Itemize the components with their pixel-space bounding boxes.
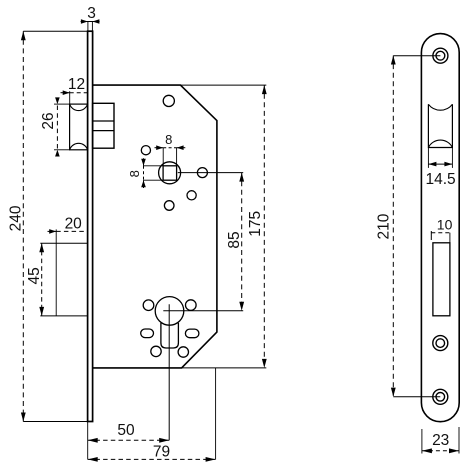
svg-text:10: 10 — [437, 217, 453, 233]
svg-text:210: 210 — [376, 213, 393, 239]
svg-text:175: 175 — [247, 211, 264, 237]
svg-text:14.5: 14.5 — [426, 171, 456, 188]
svg-text:8: 8 — [127, 170, 142, 177]
svg-text:23: 23 — [432, 432, 449, 449]
svg-text:20: 20 — [65, 216, 83, 233]
svg-text:8: 8 — [165, 132, 172, 147]
svg-text:45: 45 — [26, 267, 43, 284]
svg-text:12: 12 — [68, 76, 85, 93]
svg-text:85: 85 — [226, 231, 243, 248]
svg-text:26: 26 — [40, 112, 57, 129]
svg-text:240: 240 — [7, 205, 24, 231]
svg-text:79: 79 — [153, 444, 170, 461]
svg-text:50: 50 — [117, 422, 135, 439]
svg-text:3: 3 — [87, 5, 96, 22]
